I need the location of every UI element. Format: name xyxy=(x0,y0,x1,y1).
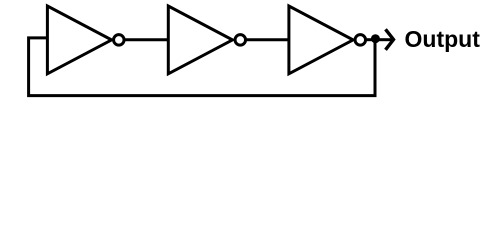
svg-text:Output: Output xyxy=(405,26,481,52)
